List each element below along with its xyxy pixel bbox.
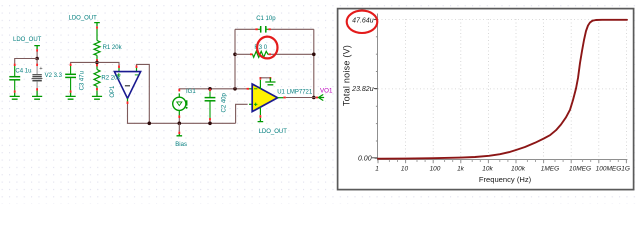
net flag LDO_OUT (top middle)	[94, 23, 100, 27]
gridline 23.82u	[378, 88, 627, 90]
wire Bias stub	[178, 123, 180, 131]
resistor R2 20k	[94, 64, 100, 90]
node junction R3 row left	[233, 53, 237, 57]
net flag LDO_OUT (U1 supply)	[258, 118, 264, 122]
node junction IG1/bias	[178, 122, 182, 126]
svg-text:R1 20k: R1 20k	[103, 45, 123, 51]
wire U1 upper input pin	[247, 88, 249, 90]
svg-text:100MEG: 100MEG	[596, 166, 622, 173]
wire C2 bottom	[209, 120, 211, 123]
capacitor C1 10p	[257, 26, 270, 33]
node junction C2 top	[208, 87, 212, 91]
capacitor C4	[9, 66, 20, 90]
svg-text:LDO_OUT: LDO_OUT	[13, 37, 42, 43]
svg-text:VO1: VO1	[320, 88, 333, 95]
svg-text:23.82u: 23.82u	[351, 86, 374, 93]
op-amp OP1	[110, 68, 141, 101]
wire node to OP1 +input	[97, 62, 119, 65]
net flag LDO_OUT (left)	[34, 46, 40, 50]
x-axis	[377, 160, 627, 164]
pin end	[96, 59, 98, 61]
svg-text:1k: 1k	[457, 166, 465, 173]
svg-text:0.00: 0.00	[358, 155, 372, 162]
svg-text:47.64u: 47.64u	[352, 17, 374, 24]
svg-text:IG1: IG1	[186, 89, 196, 95]
x tick labels	[375, 166, 630, 173]
pin end U1 output	[283, 97, 285, 99]
pin end	[36, 64, 38, 66]
pin end	[260, 115, 262, 118]
wire OP1 feedback	[137, 64, 150, 123]
noise curve	[378, 20, 627, 159]
svg-text:LDO_OUT: LDO_OUT	[259, 129, 288, 135]
pin end	[178, 132, 180, 134]
wire step up to U1 +input	[236, 104, 248, 123]
wire IG1 top to U1 input rail	[179, 89, 247, 91]
capacitor C3	[65, 66, 76, 90]
op-amp U1 LMP7721	[249, 80, 283, 115]
svg-text:C3 47u: C3 47u	[79, 71, 85, 90]
pin end	[136, 65, 138, 68]
pin end	[96, 64, 98, 66]
pin end	[96, 26, 98, 28]
y tick label 23.82u	[351, 86, 374, 93]
pin end	[36, 88, 38, 90]
capacitor C2	[205, 91, 216, 118]
svg-text:10: 10	[401, 166, 409, 173]
chart panel	[338, 9, 634, 190]
pin end	[14, 90, 16, 92]
wire right loop vertical	[313, 29, 315, 97]
node junction below R1	[95, 61, 99, 65]
svg-text:100: 100	[430, 166, 441, 173]
svg-text:10MEG: 10MEG	[569, 166, 591, 173]
y tick label 47.64u	[352, 17, 374, 24]
ground below C3	[66, 93, 76, 99]
annotation circle 47.64u	[347, 11, 378, 33]
resistor R1 20k	[94, 29, 100, 60]
wire junction to C4	[15, 59, 37, 64]
pin end	[127, 101, 129, 104]
node junction feedback/output	[148, 122, 152, 126]
vertical decade gridlines	[406, 19, 627, 159]
svg-text:U1 LMP7721: U1 LMP7721	[277, 90, 313, 96]
pin end	[70, 64, 72, 66]
svg-text:100k: 100k	[511, 166, 526, 173]
svg-text:R2 20k: R2 20k	[101, 76, 121, 82]
output pin VO1	[318, 95, 323, 101]
pin end	[70, 90, 72, 92]
node junction output	[312, 96, 316, 100]
pin end	[14, 64, 16, 66]
wire C1 row	[235, 28, 314, 30]
svg-text:V2 3.3: V2 3.3	[45, 73, 63, 79]
pin end	[316, 97, 318, 99]
svg-text:OP1: OP1	[110, 85, 116, 98]
resistor R3 0	[251, 51, 270, 57]
svg-text:1MEG: 1MEG	[541, 166, 559, 173]
battery V2	[32, 66, 43, 90]
wire output to VO1	[286, 97, 318, 99]
node junction R3 row right	[312, 53, 316, 57]
pin end	[178, 115, 180, 118]
svg-text:Frequency (Hz): Frequency (Hz)	[479, 175, 532, 184]
wire IG1 bottom	[178, 118, 180, 123]
pin end	[178, 89, 180, 92]
pin end	[36, 49, 38, 51]
pin end	[118, 65, 120, 68]
svg-text:1G: 1G	[621, 166, 630, 173]
ground below R2	[92, 91, 102, 100]
wire left loop vertical	[234, 29, 236, 89]
svg-text:C1 10p: C1 10p	[256, 16, 276, 22]
pin end	[96, 88, 98, 90]
wire junction to V2	[36, 59, 38, 64]
current source IG1	[173, 93, 188, 115]
node junction left loop bottom	[233, 87, 237, 91]
wire flag to junction	[36, 51, 38, 58]
pin end	[260, 77, 262, 80]
ground above U1	[265, 78, 275, 85]
gridline 47.64u	[378, 18, 627, 20]
wire node to C3	[71, 62, 97, 63]
svg-text:C4 1u: C4 1u	[15, 69, 31, 75]
svg-text:LDO_OUT: LDO_OUT	[69, 16, 98, 22]
wire U1 supply to ground	[260, 78, 270, 81]
svg-text:C2 40p: C2 40p	[222, 92, 228, 112]
svg-text:1: 1	[375, 166, 379, 173]
node junction	[35, 57, 39, 61]
ground below C4	[10, 93, 20, 99]
svg-text:Total noise (V): Total noise (V)	[342, 45, 352, 106]
x-axis minor ticks	[389, 160, 618, 163]
wire R3 row	[235, 53, 314, 55]
net flag Bias	[177, 134, 183, 136]
ground below V2	[32, 91, 42, 100]
wire OP1 output to bias rail	[128, 104, 236, 123]
y-axis	[375, 14, 378, 161]
y tick label 0.00	[358, 155, 372, 162]
svg-text:Bias: Bias	[175, 142, 187, 148]
svg-text:10k: 10k	[482, 166, 493, 173]
annotation circle around R3	[257, 37, 277, 59]
node junction C2 bottom	[208, 122, 212, 126]
